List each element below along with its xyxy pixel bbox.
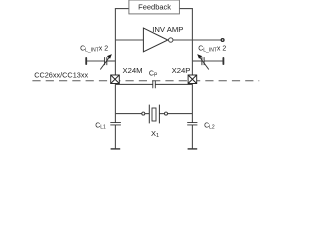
svg-text:CL1: CL1 (95, 122, 106, 130)
svg-text:CP: CP (149, 70, 158, 78)
svg-text:CL2: CL2 (204, 122, 215, 130)
svg-text:CL_INTx 2: CL_INTx 2 (80, 45, 108, 53)
svg-text:INV AMP: INV AMP (152, 25, 183, 34)
svg-text:Feedback: Feedback (138, 3, 171, 12)
svg-text:X24P: X24P (172, 66, 191, 75)
svg-text:X1: X1 (151, 129, 159, 139)
svg-text:CC26xx/CC13xx: CC26xx/CC13xx (34, 71, 88, 80)
svg-text:CL_INTx 2: CL_INTx 2 (198, 45, 226, 53)
svg-text:X24M: X24M (123, 66, 143, 75)
